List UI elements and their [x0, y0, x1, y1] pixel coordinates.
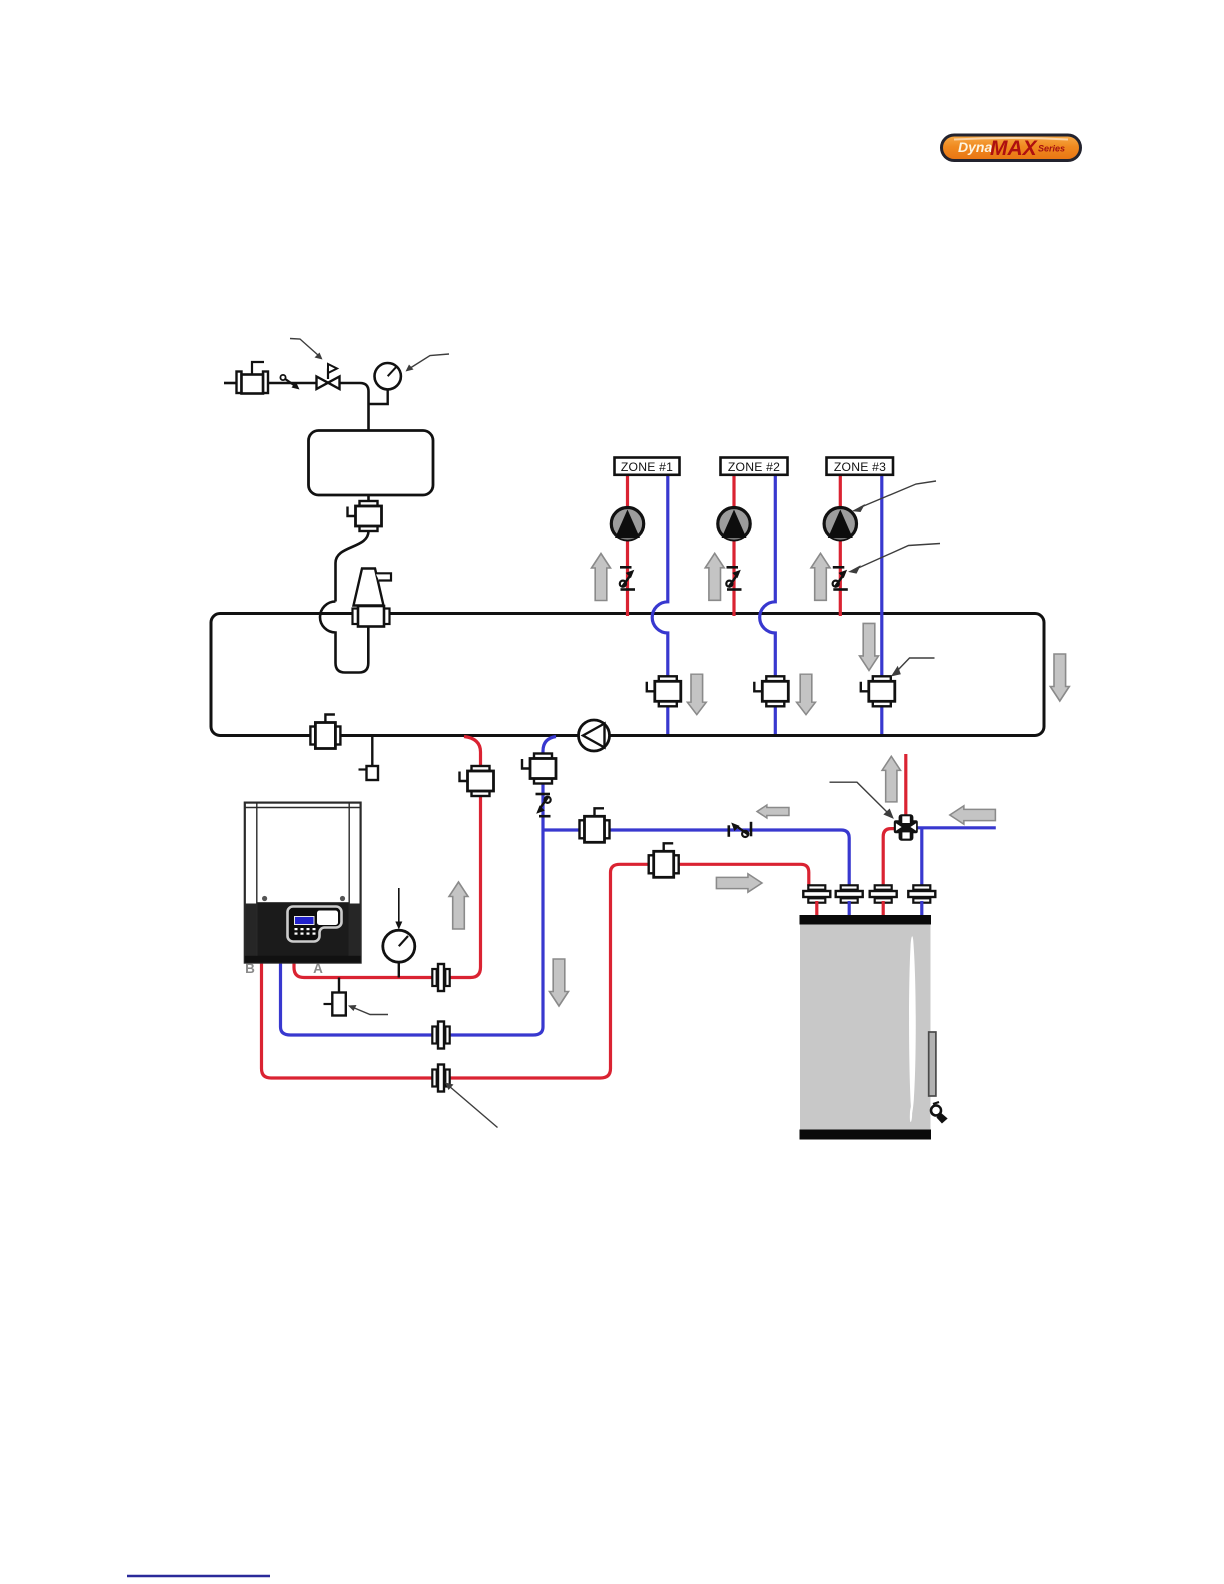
air separator [353, 569, 392, 627]
wire: tank return blue branch to tank [543, 830, 849, 886]
wire: boiler return blue from header down [281, 737, 557, 1036]
unions on tank risers [803, 885, 830, 902]
primary/secondary header loop [211, 614, 1044, 736]
wire: boiler supply red from header down to port A [294, 737, 481, 978]
svg-text:ZONE #2: ZONE #2 [728, 460, 780, 474]
zone 3 down arrow [860, 623, 879, 670]
left arrow on tank return branch [757, 805, 789, 818]
left arrow cold in [950, 806, 996, 824]
leader to zone 3 purge valve [893, 658, 935, 675]
wire: zone 1 supply [626, 474, 629, 616]
wire: zone 2 supply [732, 474, 735, 616]
pressure gauge on feed [369, 363, 401, 404]
wire: red B loop boiler to tank [262, 864, 809, 1078]
zone 3 check valve [833, 567, 848, 589]
valve on return header [310, 715, 340, 749]
expansion tank [309, 431, 434, 496]
footer rule [127, 1575, 270, 1577]
leader to mixing valve [830, 782, 893, 817]
zone 2 purge valve [754, 676, 788, 706]
wire: zone 1 return lower [666, 706, 669, 734]
zone 3 pump [824, 508, 856, 540]
union on boiler return line [432, 1022, 449, 1049]
zone 1 up arrow [592, 554, 611, 601]
wire: tempered water out top [904, 754, 907, 819]
zone 3 purge valve [861, 676, 895, 706]
union on port A line [432, 964, 449, 991]
svg-text:MAX: MAX [990, 137, 1039, 160]
zone 2 down arrow [797, 674, 816, 714]
up arrow DHW [882, 756, 900, 802]
zone 1 down arrow [687, 674, 706, 714]
right arrow on tank supply [716, 874, 762, 892]
leader to union [445, 1083, 498, 1128]
wire: zone 3 supply [839, 474, 842, 616]
valve on boiler return [522, 754, 556, 784]
svg-text:ZONE #3: ZONE #3 [834, 460, 886, 474]
zone 3 up arrow [811, 553, 830, 600]
zone 1 purge valve [647, 676, 681, 706]
svg-text:Dyna: Dyna [958, 139, 992, 155]
down arrow right of header [1050, 654, 1069, 701]
wire: bypass hop and loop under header [320, 602, 368, 673]
zone 2 pump [718, 508, 750, 540]
control panel [288, 907, 342, 942]
wire: cold feed stub [224, 382, 237, 385]
wire: zone 3 return [880, 474, 883, 677]
wire: tank hot out red riser [883, 829, 895, 886]
down arrow beside boiler return [550, 959, 569, 1006]
zone 1 label box [615, 458, 680, 475]
leader arrow to boiler gauge [395, 888, 402, 930]
svg-text:B: B [245, 961, 255, 976]
boiler gauge [383, 930, 415, 977]
zone 2 label box [721, 458, 788, 475]
union on red B line [432, 1065, 449, 1092]
valve on tank return branch [580, 808, 610, 842]
wire: riser stubs into tank [815, 901, 818, 917]
valve under expansion tank [348, 501, 382, 531]
wire: cold water in [918, 826, 996, 829]
leader to PRV [290, 339, 323, 360]
wire: tank to valve [367, 495, 370, 501]
wire: zone 1 return with hop [652, 474, 668, 677]
backflow preventer [237, 362, 269, 394]
zone 1 pump [611, 508, 643, 540]
tank side element [929, 1032, 936, 1096]
DynaMAX logo [942, 135, 1081, 161]
drain valve on port A line [324, 978, 389, 1016]
wire: feed pipe to PRV [268, 382, 316, 385]
boiler [245, 803, 361, 963]
mixing valve [894, 814, 918, 841]
up arrow beside boiler supply [449, 882, 468, 929]
drain under return header [359, 736, 379, 781]
circulator pump on return header [579, 720, 610, 751]
wire: zone 3 return lower [880, 706, 883, 734]
svg-text:Series: Series [1038, 144, 1065, 154]
zone 1 check valve [620, 567, 635, 589]
wire: zone 2 return with hop [760, 474, 776, 677]
valve on tank supply line [649, 843, 679, 877]
wire: zone 2 return lower [774, 706, 777, 734]
zone 3 label box [827, 458, 894, 475]
pressure reducing valve [317, 364, 340, 389]
zone 2 check valve [726, 567, 741, 589]
indirect water heater tank [800, 915, 932, 1140]
wire: cold water to tank [920, 828, 923, 886]
leader to zone 3 check valve [851, 544, 940, 573]
leader to gauge [406, 354, 450, 372]
check valve on tank return branch [729, 822, 751, 837]
check valve on feed [280, 375, 299, 390]
check valve on boiler return [536, 794, 551, 816]
wire: S-pipe from valve to bypass [336, 531, 369, 602]
valve on boiler supply [460, 766, 494, 796]
tank drain cock [931, 1102, 946, 1123]
leader to zone 3 pump [855, 481, 936, 511]
svg-text:A: A [313, 961, 323, 976]
zone 2 up arrow [705, 553, 724, 600]
wire: pipe PRV to expansion tank [340, 383, 369, 431]
svg-text:ZONE #1: ZONE #1 [621, 460, 673, 474]
